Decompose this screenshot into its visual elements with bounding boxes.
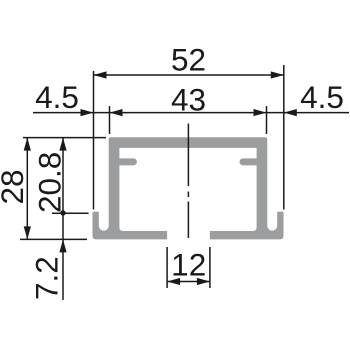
svg-text:4.5: 4.5 <box>300 79 344 115</box>
52 left/right <box>94 71 107 78</box>
arrowheads <box>24 71 297 285</box>
28 top/bottom <box>24 138 31 151</box>
12 left/right <box>167 278 180 285</box>
43 left/right <box>110 109 123 116</box>
7.2 up arrow at bottom ext <box>59 239 66 252</box>
dimension lines <box>27 75 349 300</box>
svg-text:52: 52 <box>171 42 206 78</box>
4.5 left (points right) <box>81 109 94 116</box>
extension lines <box>20 65 284 288</box>
4.5 right (points left) <box>284 109 297 116</box>
20.8 top <box>59 138 66 151</box>
svg-text:28: 28 <box>0 169 30 204</box>
svg-text:20.8: 20.8 <box>32 152 68 213</box>
centerline <box>187 124 189 239</box>
dimension texts <box>0 42 344 301</box>
rail profile cross-section <box>93 137 284 239</box>
svg-text:4.5: 4.5 <box>35 79 79 115</box>
svg-text:12: 12 <box>171 246 206 282</box>
20.8 dot <box>60 210 65 215</box>
svg-text:43: 43 <box>171 82 206 118</box>
svg-text:7.2: 7.2 <box>29 256 65 300</box>
